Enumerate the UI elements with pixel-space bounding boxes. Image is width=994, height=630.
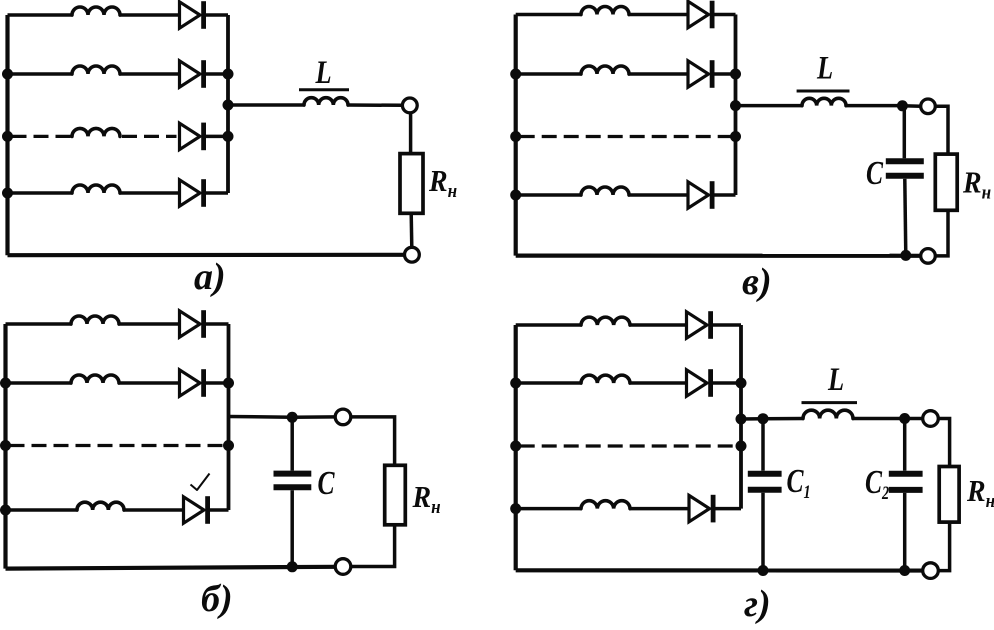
svg-text:C2: C2 <box>865 462 889 503</box>
inductor: circuit g phase 1 secondary winding <box>581 317 630 325</box>
wire: circuit v right cathode bus <box>734 15 738 196</box>
node: circuit v left bus junction phase 2 <box>510 69 521 80</box>
wire: circuit a phase 2 winding-to-diode <box>119 72 181 76</box>
resistor RH: circuit g load <box>939 467 959 523</box>
wire: circuit a phase 1 winding-to-diode <box>119 13 181 17</box>
capacitor C1: circuit g pre-filter <box>748 474 782 490</box>
wire: circuit b capacitor bottom lead <box>290 490 294 567</box>
svg-text:Rн: Rн <box>962 166 991 202</box>
svg-text:L: L <box>315 54 332 90</box>
wire: circuit g + terminal to load top <box>938 419 949 468</box>
node: circuit a right bus junction (phase 2) <box>223 69 234 80</box>
node: circuit g right bus junction (output) <box>736 414 747 425</box>
node: circuit g left bus junction phase 4 <box>510 503 521 514</box>
diode: circuit v phase 2 rectifier <box>688 60 712 88</box>
inductor: circuit g phase 2 secondary winding <box>581 375 630 383</box>
inductor: circuit v phase 2 secondary winding <box>581 66 629 74</box>
svg-text:Rн: Rн <box>412 481 441 517</box>
terminal: circuit g - output <box>923 563 939 579</box>
wire: circuit a bottom return <box>8 253 405 258</box>
terminal: circuit b - output <box>335 559 351 575</box>
diode: circuit a phase 3 rectifier <box>180 123 204 151</box>
node: circuit g left bus junction phase 3 <box>510 441 521 452</box>
diode: circuit g phase 4 rectifier <box>689 495 713 523</box>
wire: circuit a choke to + terminal <box>347 103 403 107</box>
wire: circuit v capacitor top lead <box>903 106 907 159</box>
capacitor C: circuit v filter <box>886 161 924 176</box>
wire: circuit v phase 1 diode-to-bus <box>712 13 735 17</box>
wire: circuit g C2 bottom lead <box>903 493 907 571</box>
wire: circuit g phase 1 winding-to-diode <box>629 323 688 327</box>
svg-text:а): а) <box>194 256 226 298</box>
wire: circuit a left supply bus <box>5 15 9 255</box>
node: circuit b right bus junction (phase 2) <box>223 378 234 389</box>
wire: circuit a load to - terminal <box>409 213 413 247</box>
wire: circuit v choke to capacitor node <box>845 104 902 108</box>
terminal: circuit g + output <box>923 411 939 427</box>
wire: circuit g C2 node to + terminal <box>905 417 923 421</box>
wire: circuit v + terminal to load top <box>935 106 948 155</box>
resistor RH: circuit b load <box>385 465 406 525</box>
inductor L: circuit g filter choke winding <box>803 410 853 418</box>
node: circuit b left bus junction phase 3 <box>0 440 11 451</box>
svg-text:Rн: Rн <box>966 475 994 511</box>
node: circuit g C2 tap <box>899 413 910 424</box>
wire: circuit g load bottom to - terminal <box>938 521 949 570</box>
diode: circuit v phase 1 rectifier <box>688 1 712 29</box>
inductor: circuit a phase 1 secondary winding <box>72 7 120 15</box>
wire: circuit b phase 4 diode-to-bus <box>208 508 229 512</box>
node: circuit g C1-return junction <box>758 565 769 576</box>
diode: circuit g phase 1 rectifier <box>687 311 711 339</box>
wire: circuit g output to C1 node <box>741 417 763 421</box>
wire: circuit a phase 4 winding-to-diode <box>119 191 181 195</box>
wire: circuit g choke core bar <box>802 401 858 404</box>
inductor: circuit b phase 2 secondary winding <box>71 375 119 383</box>
svg-text:L: L <box>816 50 833 86</box>
wire: circuit a phase 4 lead-in <box>8 191 74 195</box>
wire: circuit g right cathode bus <box>739 325 743 509</box>
node: circuit v right bus junction (output) <box>730 100 741 111</box>
node: circuit g right bus junction (phase 3) <box>736 441 747 452</box>
wire: circuit g phase 4 lead-in <box>516 507 582 511</box>
wire: circuit a phase 1 lead-in <box>8 13 74 17</box>
inductor: circuit b phase 1 secondary winding <box>71 316 119 324</box>
inductor: circuit g phase 4 secondary winding <box>581 501 630 509</box>
wire: circuit v load bottom to - terminal <box>935 210 948 256</box>
node: circuit a right bus junction (output) <box>223 100 234 111</box>
svg-text:г): г) <box>744 583 771 625</box>
wire: circuit g C1 top lead <box>761 419 765 471</box>
node: circuit b capacitor tap <box>287 412 298 423</box>
inductor: circuit v phase 1 secondary winding <box>581 7 629 15</box>
terminal: circuit v - output <box>921 249 936 264</box>
node: circuit v left bus junction phase 4 <box>510 190 521 201</box>
wire: circuit v phase 4 diode-to-bus <box>712 193 735 197</box>
inductor: circuit a phase 3 secondary winding <box>72 128 120 136</box>
wire: circuit b bottom return <box>6 567 336 569</box>
resistor RH: circuit a load <box>400 154 423 214</box>
wire: circuit v bottom return <box>516 254 921 258</box>
node: circuit v capacitor-return junction <box>900 250 911 261</box>
wire: circuit b phase 1 lead-in <box>6 322 73 326</box>
wire: circuit g phase 2 lead-in <box>516 381 582 385</box>
wire: circuit g C1 bottom lead <box>761 493 765 571</box>
terminal: circuit v + output <box>921 99 936 114</box>
diode: circuit b phase 1 rectifier <box>180 310 204 338</box>
wire: circuit v phase 2 lead-in <box>516 72 582 76</box>
node: circuit g left bus junction phase 2 <box>510 378 521 389</box>
wire: circuit a phase 2 lead-in <box>8 72 74 76</box>
terminal: circuit a - output <box>405 247 420 262</box>
svg-text:C: C <box>866 153 884 191</box>
wire: circuit b phase 1 winding-to-diode <box>118 322 181 326</box>
wire: circuit b phase 3 line (dashed, omitted phases) <box>10 444 227 447</box>
wire: circuit v phase 3 line (dashed, omitted phases) <box>520 135 734 138</box>
wire: circuit a phase 3 lead-in (dashed) <box>12 135 74 138</box>
inductor: circuit a phase 2 secondary winding <box>72 66 120 74</box>
wire: circuit b phase 4 winding-to-diode <box>123 508 185 512</box>
wire: circuit b node to + terminal <box>292 415 335 419</box>
wire: circuit g phase 1 diode-to-bus <box>711 323 741 327</box>
node: circuit g C1 tap <box>758 413 769 424</box>
svg-text:в): в) <box>742 261 772 303</box>
wire: circuit v left supply bus <box>514 15 518 256</box>
wire: circuit g C1 node to choke <box>763 417 804 421</box>
wire: circuit a right cathode bus <box>226 15 230 193</box>
wire: circuit g phase 4 winding-to-diode <box>629 507 690 511</box>
wire: circuit v output to filter choke <box>736 104 804 108</box>
diode: circuit a phase 2 rectifier <box>180 60 204 88</box>
wire: circuit g phase 2 winding-to-diode <box>629 381 688 385</box>
wire: circuit v capacitor bottom lead <box>905 179 906 256</box>
wire: circuit a phase 2 diode-to-bus <box>204 72 228 76</box>
wire: circuit g left supply bus <box>514 325 518 570</box>
resistor RH: circuit v load <box>935 154 957 210</box>
wire: circuit a output to filter choke <box>228 103 305 107</box>
wire: circuit g bottom return <box>516 568 923 572</box>
svg-text:C: C <box>318 463 336 501</box>
wire: circuit a phase 3 winding-to-diode (dashed) <box>122 135 177 138</box>
node: circuit v right bus junction (phase 2) <box>730 69 741 80</box>
wire: circuit v phase 1 winding-to-diode <box>628 13 689 17</box>
node: circuit b right bus junction (phase 3) <box>223 440 234 451</box>
wire: circuit a choke core bar <box>299 88 349 91</box>
wire: circuit a phase 3 diode-to-bus <box>204 135 228 139</box>
diode: circuit a phase 1 rectifier <box>180 1 204 29</box>
node: circuit v filter capacitor tap <box>897 100 908 111</box>
wire: circuit b phase 2 lead-in <box>6 381 73 385</box>
wire: circuit b output to capacitor node <box>229 415 293 419</box>
wire: circuit g choke to C2 node <box>852 417 905 421</box>
node: circuit b capacitor-return junction <box>287 561 298 572</box>
wire: circuit g C2 top lead <box>903 419 907 471</box>
wire: circuit v phase 4 lead-in <box>516 193 582 197</box>
wire: circuit g phase 3 line (dashed, omitted phases) <box>520 444 739 447</box>
wire: circuit b phase 2 winding-to-diode <box>118 381 181 385</box>
wire: circuit g phase 4 diode-to-bus <box>713 507 741 511</box>
inductor: circuit b phase 4 secondary winding <box>77 502 124 510</box>
inductor: circuit v phase 4 secondary winding <box>581 187 629 195</box>
svg-text:C1: C1 <box>787 461 811 502</box>
mark: stray check tick above phase 4 diode (circuit b) <box>191 474 210 491</box>
inductor: circuit a phase 4 secondary winding <box>72 185 120 193</box>
wire: circuit g phase 1 lead-in <box>516 323 582 327</box>
node: circuit a right bus junction (phase 3) <box>223 131 234 142</box>
wire: circuit a terminal down to load <box>409 113 413 155</box>
wire: circuit v node to + terminal <box>902 104 920 108</box>
capacitor C: circuit b filter <box>274 474 312 488</box>
node: circuit v left bus junction phase 3 <box>510 131 521 142</box>
wire: circuit v phase 1 lead-in <box>516 13 582 17</box>
node: circuit b left bus junction phase 2 <box>0 378 11 389</box>
wire: circuit b + terminal to load top <box>351 417 395 466</box>
diode: circuit v phase 4 rectifier <box>688 181 712 209</box>
diode: circuit b phase 2 rectifier <box>180 369 204 397</box>
svg-text:L: L <box>827 361 844 397</box>
wire: circuit v choke core bar <box>797 90 850 93</box>
wire: circuit b load bottom to - terminal <box>351 524 395 567</box>
wire: circuit b phase 1 diode-to-bus <box>204 322 229 326</box>
terminal: circuit a + output <box>402 98 417 113</box>
wire: circuit b right cathode bus <box>227 324 231 510</box>
wire: circuit a phase 1 diode-to-bus <box>204 13 228 17</box>
node: circuit a left bus junction phase 2 <box>2 69 13 80</box>
wire: circuit b phase 2 diode-to-bus <box>204 381 229 385</box>
diode: circuit a phase 4 rectifier <box>180 179 204 207</box>
svg-text:б): б) <box>201 578 233 620</box>
wire: circuit b capacitor top lead <box>290 417 294 470</box>
node: circuit g right bus junction (phase 2) <box>736 378 747 389</box>
wire: circuit b phase 4 lead-in <box>6 508 79 512</box>
capacitor C2: circuit g post-filter <box>889 474 923 490</box>
node: circuit g C2-return junction <box>899 565 910 576</box>
node: circuit v right bus junction (phase 3) <box>730 131 741 142</box>
diode: circuit b phase 4 rectifier <box>184 496 208 524</box>
wire: circuit v phase 2 diode-to-bus <box>712 72 735 76</box>
wire: circuit v phase 4 winding-to-diode <box>628 193 689 197</box>
node: circuit a left bus junction phase 3 <box>2 131 13 142</box>
wire: circuit g phase 2 diode-to-bus <box>711 381 741 385</box>
wire: circuit a phase 4 diode-to-bus <box>204 191 228 195</box>
inductor L: circuit v filter choke winding <box>802 98 846 105</box>
inductor L: circuit a filter choke winding <box>304 98 348 105</box>
node: circuit b left bus junction phase 4 <box>0 505 11 516</box>
terminal: circuit b + output <box>335 409 351 425</box>
wire: circuit b left supply bus <box>3 324 7 569</box>
wire: circuit v phase 2 winding-to-diode <box>628 72 689 76</box>
diode: circuit g phase 2 rectifier <box>687 369 711 397</box>
node: circuit a left bus junction phase 4 <box>2 188 13 199</box>
svg-text:Rн: Rн <box>428 165 457 201</box>
